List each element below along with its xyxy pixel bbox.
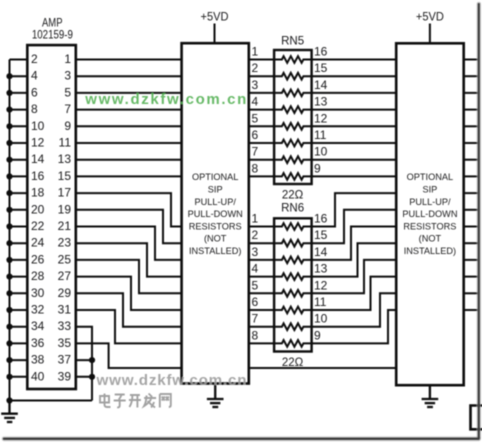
wire ground bus vertical [9,60,11,401]
svg-text:12: 12 [314,278,328,292]
wire RN5 pin 10 to RP2 [312,159,397,161]
wire RP2 right stub row 16 [464,309,478,311]
resistor RN6-6 [273,307,314,314]
wire pin 31 step-down to RP1 [76,310,182,343]
ground symbol right [422,385,439,407]
svg-text:OPTIONAL: OPTIONAL [192,172,238,182]
wire stub pin 26 to bus [10,259,29,261]
junction dot bus pin 22 [6,223,12,229]
svg-text:7: 7 [64,102,71,116]
svg-text:28: 28 [31,269,45,283]
svg-text:22: 22 [31,219,45,233]
svg-text:www.dzkfw.com.cn: www.dzkfw.com.cn [96,372,247,389]
junction dot pin 39 [89,374,95,380]
wire RP2 right stub row 9 [464,192,478,194]
wire RP1 to RN5 pin 3 [249,92,274,94]
junction dot bus pin 14 [6,157,12,163]
junction dot bus pin 4 [6,73,12,79]
svg-text:38: 38 [31,353,45,367]
svg-text:3: 3 [252,78,259,92]
svg-text:31: 31 [58,303,72,317]
svg-text:8: 8 [31,102,38,116]
junction dot bus pin 18 [6,190,12,196]
svg-text:24: 24 [31,236,45,250]
page border bottom blur [4,436,479,441]
svg-text:14: 14 [314,245,328,259]
svg-text:19: 19 [58,202,72,216]
wire stub pin 14 to bus [10,159,29,161]
wire RP1 to RN5 pin 8 [249,175,274,177]
wire stub pin 10 to bus [10,125,29,127]
wire pin 7 to RP1 [76,109,182,111]
wire RN6 pin 11 step-up to RP2 [312,277,397,310]
svg-text:11: 11 [59,136,72,150]
wire RN6 pin 15 step-up to RP2 [312,210,397,243]
svg-text:16: 16 [31,169,45,183]
wire RP1 to RN5 pin 7 [249,159,274,161]
svg-text:36: 36 [31,336,45,350]
wire RN5 pin 9 to RP2 [312,175,397,177]
wire +5VD to RP1 [214,24,216,44]
resistor RN5-5 [273,123,314,130]
svg-text:(NOT: (NOT [204,234,227,244]
svg-text:4: 4 [252,95,259,109]
svg-text:8: 8 [252,328,259,342]
svg-text:27: 27 [58,269,72,283]
resistor network RN5 box [274,50,312,184]
svg-text:RN6: RN6 [281,203,304,215]
wire +5VD to RP2 [429,24,431,44]
junction dot bus pin 12 [6,140,12,146]
wire RP1 to RN5 pin 6 [249,142,274,144]
resistor RN6-5 [273,290,314,297]
wire stub pin 24 to bus [10,242,29,244]
wire pin 5 to RP1 [76,92,182,94]
wire RP1 to RN6 pin 1 [249,226,274,228]
resistor RN6-3 [273,257,314,264]
junction dot bus pin 6 [6,90,12,96]
wire RP1 to RN5 pin 2 [249,75,274,77]
wire stub pin 32 to bus [10,309,29,311]
wire RP1 to RN6 pin 5 [249,292,274,294]
wire stub pin 18 to bus [10,192,29,194]
wire RP1 to RN6 pin 7 [249,326,274,328]
svg-text:10: 10 [31,119,45,133]
wire stub pin 8 to bus [10,109,29,111]
svg-text:INSTALLED): INSTALLED) [189,246,241,256]
svg-text:AMP: AMP [42,17,63,29]
wire pin 19 step-down to RP1 [76,210,182,243]
svg-text:6: 6 [252,295,259,309]
svg-text:5: 5 [252,278,259,292]
svg-text:1: 1 [252,45,259,59]
svg-text:40: 40 [31,369,45,383]
wire RP2 right stub row 8 [464,175,478,177]
wire RP1 to RN5 pin 5 [249,125,274,127]
svg-text:PULL-DOWN: PULL-DOWN [188,209,243,219]
wire RP1 to RN6 pin 6 [249,309,274,311]
junction dot bus pin 28 [6,274,12,280]
watermark gray CJK dianzikaifawang [100,394,171,408]
svg-text:(NOT: (NOT [419,234,442,244]
svg-text:23: 23 [58,236,72,250]
wire RP2 right stub row 4 [464,109,478,111]
svg-text:3: 3 [252,245,259,259]
svg-text:12: 12 [31,136,45,150]
resistor network RN6 box [274,218,312,351]
svg-text:4: 4 [31,69,38,83]
resistor RN5-3 [273,90,314,97]
wire RP2 right stub row 3 [464,92,478,94]
svg-text:11: 11 [314,128,327,142]
junction dot bus bottom [6,397,12,403]
wire pin 13 to RP1 [76,159,182,161]
resistor RN6-1 [273,223,314,230]
svg-text:14: 14 [314,78,328,92]
wire pin 39 to ground vertical [76,376,92,378]
wire stub pin 30 to bus [10,292,29,294]
wire RN6 pin 9 step-up to RP2 [312,310,397,343]
wire stub pin 40 to bus [10,376,29,378]
svg-text:www.dzkfw.com.cn: www.dzkfw.com.cn [84,91,246,108]
svg-text:102159-9: 102159-9 [32,29,73,41]
wire RP2 right stub row 1 [464,59,478,61]
resistor RN5-8 [273,173,314,180]
wire stub pin 6 to bus [10,92,29,94]
svg-text:RN5: RN5 [281,36,304,48]
resistor RN5-6 [273,140,314,147]
wire RN5 pin 11 to RP2 [312,142,397,144]
wire RP1 to RN5 pin 4 [249,109,274,111]
wire pin 33 to ground [76,327,92,401]
svg-text:33: 33 [58,319,72,333]
junction dot bus pin 26 [6,257,12,263]
wire pin 3 to RP1 [76,75,182,77]
wire stub pin 2 to bus [10,59,29,61]
svg-text:10: 10 [314,312,328,326]
wire pin 9 to RP1 [76,125,182,127]
svg-text:INSTALLED): INSTALLED) [404,246,456,256]
junction dot bus pin 36 [6,340,12,346]
svg-text:37: 37 [58,353,72,367]
svg-text:1: 1 [64,52,71,66]
svg-text:25: 25 [58,252,72,266]
svg-text:6: 6 [31,85,38,99]
wire RP2 right stub row 2 [464,75,478,77]
svg-text:15: 15 [58,169,72,183]
wire RP1 to RN6 pin 2 [249,242,274,244]
wire RN6 pin 16 step-up to RP2 [312,193,397,226]
svg-text:SIP: SIP [208,185,223,195]
wire pin 35 pass-through RP1 to RP2 [249,367,396,369]
wire RN6 pin 13 step-up to RP2 [312,243,397,276]
wire RP2 right stub row 15 [464,292,478,294]
resistor RN6-2 [273,240,314,247]
wire stub pin 20 to bus [10,209,29,211]
SIP resistor box RP1 (optional, not installed) [182,43,249,383]
wire pin 37 to ground vertical [76,359,92,361]
wire RN5 pin 15 to RP2 [312,75,397,77]
wire RN5 pin 12 to RP2 [312,125,397,127]
svg-text:5: 5 [252,111,259,125]
junction dot bus pin 32 [6,307,12,313]
resistor RN6-8 [273,340,314,347]
wire pin 11 to RP1 [76,142,182,144]
svg-text:5: 5 [64,85,71,99]
partial component box bottom right [471,406,482,430]
wire stub pin 28 to bus [10,276,29,278]
junction dot bus pin 34 [6,324,12,330]
wire RN6 pin 12 step-up to RP2 [312,260,397,293]
wire pin 1 to RP1 [76,59,182,61]
resistor RN6-4 [273,273,314,280]
svg-text:15: 15 [314,61,328,75]
wire stub pin 34 to bus [10,326,29,328]
wire pin 35 under RN6 [76,343,182,368]
svg-text:7: 7 [252,145,259,159]
junction dot bus pin 38 [6,357,12,363]
wire pin 23 step-down to RP1 [76,243,182,276]
svg-text:26: 26 [31,252,45,266]
svg-text:4: 4 [252,262,259,276]
wire pin 29 step-down to RP1 [76,293,182,326]
junction dot bus pin 10 [6,123,12,129]
wire RP2 right stub row 6 [464,142,478,144]
connector J1 AMP 102159-9 [27,45,76,389]
page border right blur [476,4,481,438]
svg-text:9: 9 [64,119,71,133]
wire RP2 right stub row 11 [464,226,478,228]
svg-text:22Ω: 22Ω [282,190,304,202]
wire stub pin 36 to bus [10,342,29,344]
svg-text:13: 13 [314,262,328,276]
wire RP2 right stub row 13 [464,259,478,261]
wire stub pin 22 to bus [10,226,29,228]
svg-text:8: 8 [252,161,259,175]
junction dot bus pin 40 [6,374,12,380]
svg-text:2: 2 [252,61,259,75]
junction dot bus pin 24 [6,240,12,246]
svg-text:+5VD: +5VD [201,12,229,24]
svg-text:13: 13 [58,152,72,166]
svg-text:39: 39 [58,369,72,383]
svg-text:6: 6 [252,128,259,142]
svg-text:18: 18 [31,186,45,200]
wire pin 27 step-down to RP1 [76,277,182,310]
svg-text:3: 3 [64,69,71,83]
wire RP1 to RN5 pin 1 [249,59,274,61]
resistor RN5-1 [273,56,314,63]
svg-text:30: 30 [31,286,45,300]
wire RP1 to RN6 pin 4 [249,276,274,278]
junction dot bus pin 16 [6,173,12,179]
resistor RN5-4 [273,106,314,113]
svg-text:9: 9 [314,328,321,342]
wire stub pin 38 to bus [10,359,29,361]
svg-text:RESISTORS: RESISTORS [403,221,456,231]
svg-text:7: 7 [252,312,259,326]
wire RP2 right stub row 7 [464,159,478,161]
svg-text:PULL-UP/: PULL-UP/ [195,197,237,207]
wire RN5 pin 16 to RP2 [312,59,397,61]
svg-text:17: 17 [58,186,72,200]
svg-text:PULL-DOWN: PULL-DOWN [402,209,457,219]
svg-text:SIP: SIP [422,185,437,195]
wire pin 21 step-down to RP1 [76,227,182,260]
wire RN5 pin 13 to RP2 [312,109,397,111]
svg-text:2: 2 [252,228,259,242]
SIP resistor box RP2 (optional, not installed) [396,43,464,385]
svg-text:11: 11 [314,295,327,309]
junction dot bus pin 20 [6,207,12,213]
svg-text:RESISTORS: RESISTORS [189,221,242,231]
junction dot bus pin 8 [6,107,12,113]
svg-text:35: 35 [58,336,72,350]
svg-text:21: 21 [58,219,72,233]
wire stub pin 12 to bus [10,142,29,144]
svg-text:+5VD: +5VD [416,12,444,24]
svg-text:32: 32 [31,303,45,317]
wire RN6 pin 10 step-up to RP2 [312,293,397,326]
junction dot pin 37 [89,357,95,363]
svg-text:34: 34 [31,319,45,333]
page border bottom [4,438,479,441]
junction dot bus pin 30 [6,290,12,296]
svg-text:13: 13 [314,95,328,109]
wire RN5 pin 14 to RP2 [312,92,397,94]
svg-text:OPTIONAL: OPTIONAL [407,172,453,182]
wire RP2 right stub row 14 [464,276,478,278]
wire RP2 right stub row 5 [464,125,478,127]
svg-text:9: 9 [314,161,321,175]
wire RP1 to RN6 pin 8 [249,342,274,344]
wire RP2 right stub row 10 [464,209,478,211]
svg-text:10: 10 [314,145,328,159]
resistor RN5-2 [273,73,314,80]
svg-text:16: 16 [314,45,328,59]
svg-text:1: 1 [252,212,259,226]
svg-text:12: 12 [314,111,328,125]
svg-text:20: 20 [31,202,45,216]
svg-text:14: 14 [31,152,45,166]
svg-text:16: 16 [314,212,328,226]
wire pin 15 to RP1 [76,175,182,177]
svg-text:2: 2 [31,52,38,66]
wire stub pin 16 to bus [10,175,29,177]
ground symbol middle [207,384,224,408]
resistor RN5-7 [273,156,314,163]
wire ground bus bottom horizontal [10,400,93,402]
wire pin 17 step-down to RP1 [76,193,182,226]
svg-text:15: 15 [314,228,328,242]
ground symbol left [1,401,18,423]
wire RP1 to RN6 pin 3 [249,259,274,261]
wire RN6 pin 14 step-up to RP2 [312,227,397,260]
resistor RN6-7 [273,323,314,330]
page border right [478,4,480,438]
svg-text:PULL-UP/: PULL-UP/ [409,197,451,207]
wire RP2 right stub row 12 [464,242,478,244]
wire stub pin 4 to bus [10,75,29,77]
svg-text:29: 29 [58,286,72,300]
wire pin 25 step-down to RP1 [76,260,182,293]
